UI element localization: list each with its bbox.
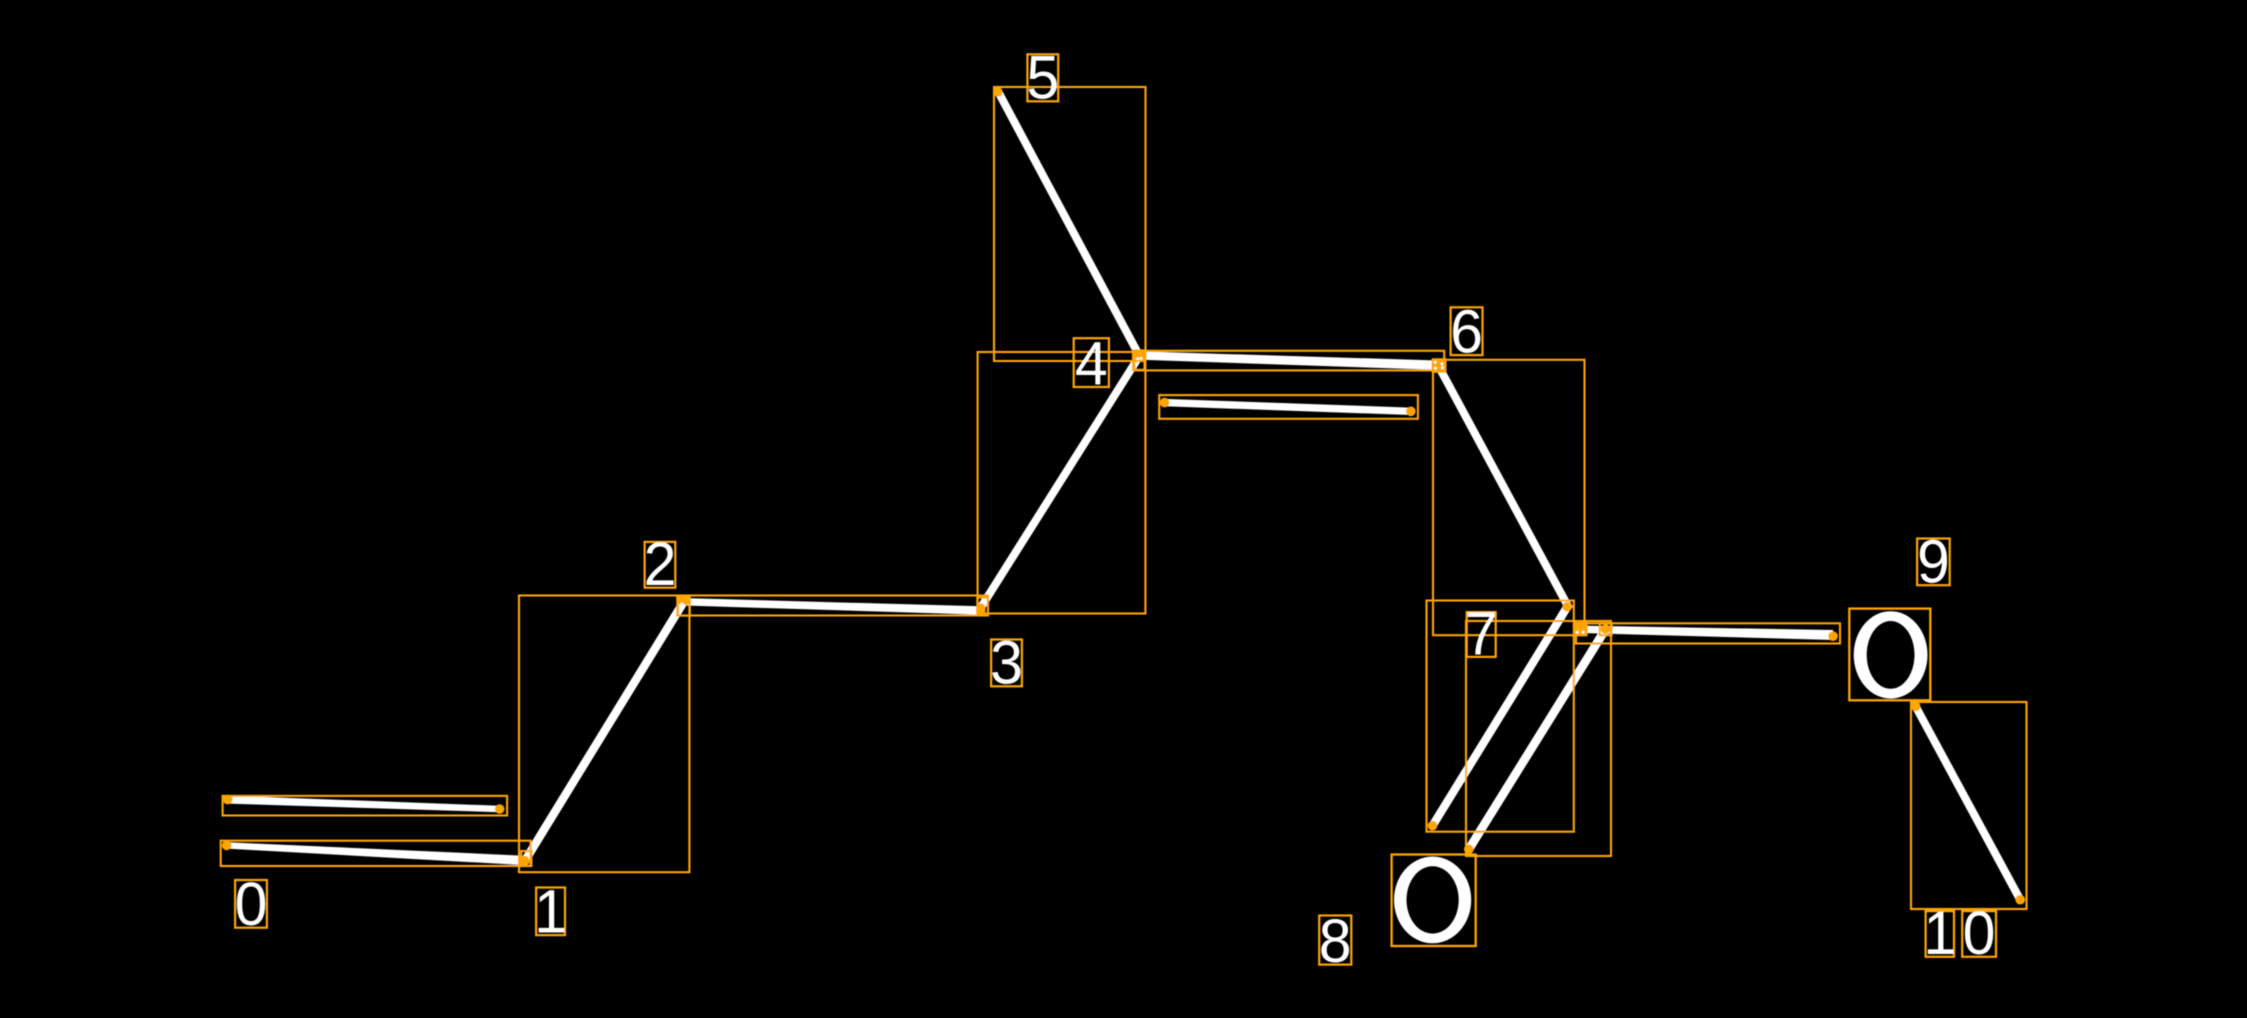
bond 9-10	[1912, 704, 2024, 901]
label box 10a	[1926, 911, 1954, 957]
svg-text:0: 0	[1963, 898, 1996, 967]
bbox bond 2-3	[678, 596, 988, 616]
endpoint dot 15	[1406, 407, 1416, 417]
svg-text:8: 8	[1319, 906, 1352, 975]
bond 0-1 main line	[227, 842, 525, 865]
svg-text:3: 3	[990, 628, 1023, 697]
atom box 6	[1433, 359, 1446, 372]
endpoint dot 14	[1160, 398, 1170, 408]
endpoint dot 17	[1428, 821, 1438, 831]
endpoint dot 18	[1601, 624, 1611, 634]
endpoint dot 20	[1828, 631, 1838, 641]
white speck a6-3	[1441, 363, 1444, 366]
bond 0-1 double line upper	[228, 796, 500, 813]
bond 4-6 double line inner	[1165, 399, 1411, 415]
label box 7	[1467, 612, 1496, 657]
bbox bond 7-9	[1576, 623, 1840, 643]
white speck a6-2	[1434, 367, 1437, 370]
bbox bond 4-5	[994, 87, 1146, 361]
endpoint dot 5	[678, 595, 688, 605]
endpoint dot 21	[1911, 702, 1921, 712]
endpoint dot 0	[223, 795, 233, 805]
endpoint dot 9	[1134, 350, 1144, 360]
bond 4-5	[995, 90, 1144, 359]
label box 9	[1917, 539, 1950, 586]
endpoint dot 8	[976, 603, 986, 613]
bbox bond 4-6 main	[1133, 351, 1444, 371]
atom box 3	[977, 598, 988, 615]
white speck a6-1	[1434, 361, 1437, 364]
label box 4	[1074, 338, 1109, 387]
svg-text:6: 6	[1450, 296, 1483, 365]
endpoint dot 11	[993, 87, 1003, 97]
bond 1-2	[521, 601, 686, 863]
white speck a4-2	[1140, 357, 1143, 360]
bbox bond 7-8 right	[1466, 621, 1611, 856]
atom box 7b	[1600, 624, 1612, 636]
label box 6	[1451, 307, 1483, 355]
bond 7-8 double line left	[1429, 604, 1571, 828]
label box 8	[1319, 916, 1351, 965]
bond 7-9	[1581, 626, 1833, 640]
endpoint dot 12	[1432, 359, 1442, 369]
bbox bond 6-7	[1433, 360, 1585, 635]
bond 3-4	[978, 354, 1143, 609]
bbox bond 1-2	[519, 596, 689, 873]
endpoint dot 22	[2015, 895, 2025, 905]
atom O box 9	[1849, 609, 1930, 701]
bond 2-3	[684, 598, 980, 615]
label box 10b	[1962, 911, 1996, 957]
endpoint dot 4	[520, 856, 530, 866]
endpoint dot 1	[495, 804, 505, 814]
atom O glyph 8	[1394, 857, 1471, 944]
white speck a7-2	[1582, 631, 1585, 634]
svg-text:9: 9	[1917, 526, 1950, 595]
svg-text:4: 4	[1075, 328, 1108, 397]
bbox bond 0-1 main	[221, 841, 531, 866]
atom box 2	[677, 597, 690, 615]
svg-text:0: 0	[235, 869, 268, 938]
bbox bond 9-10	[1911, 702, 2027, 909]
label box 5	[1027, 54, 1058, 101]
endpoint dot 23	[1574, 624, 1584, 634]
white speck a6-4	[1441, 366, 1444, 369]
bond 4-6 main line	[1140, 351, 1438, 370]
atom box 7	[1574, 623, 1586, 635]
atom box 1	[521, 851, 531, 866]
label box 3	[991, 640, 1022, 687]
white speck a7-1	[1576, 631, 1579, 634]
bbox bond 4-6 inner	[1159, 395, 1418, 419]
endpoint dot 13	[1435, 362, 1445, 372]
svg-text:1: 1	[534, 876, 567, 945]
white speck a4-1	[1136, 358, 1139, 361]
endpoint dot 24	[1578, 625, 1588, 635]
bond 7-8 double line right	[1465, 627, 1609, 852]
endpoint dot 19	[1464, 845, 1474, 855]
endpoint dot 3	[519, 856, 529, 866]
svg-text:1: 1	[1923, 898, 1956, 967]
white speck a2-2	[683, 604, 686, 607]
endpoint dot 7	[976, 606, 986, 616]
svg-text:2: 2	[644, 529, 677, 598]
bbox bond 3-4	[978, 352, 1146, 614]
endpoint dot 16	[1562, 602, 1572, 612]
svg-text:5: 5	[1026, 43, 1059, 112]
label box 1	[536, 888, 565, 936]
atom box 4	[1134, 350, 1144, 369]
bbox bond 0-1 upper	[223, 796, 508, 816]
svg-text:7: 7	[1465, 598, 1498, 667]
atom O glyph 9	[1854, 611, 1928, 698]
label box 2	[645, 542, 676, 588]
white speck a2-1	[681, 603, 684, 606]
bbox bond 7-8 left	[1427, 601, 1574, 832]
endpoint dot 6	[679, 597, 689, 607]
endpoint dot 10	[1135, 352, 1145, 362]
label box 0	[235, 880, 267, 928]
bond 6-7	[1435, 364, 1573, 611]
endpoint dot 2	[222, 841, 232, 851]
atom O box 8	[1392, 855, 1476, 947]
